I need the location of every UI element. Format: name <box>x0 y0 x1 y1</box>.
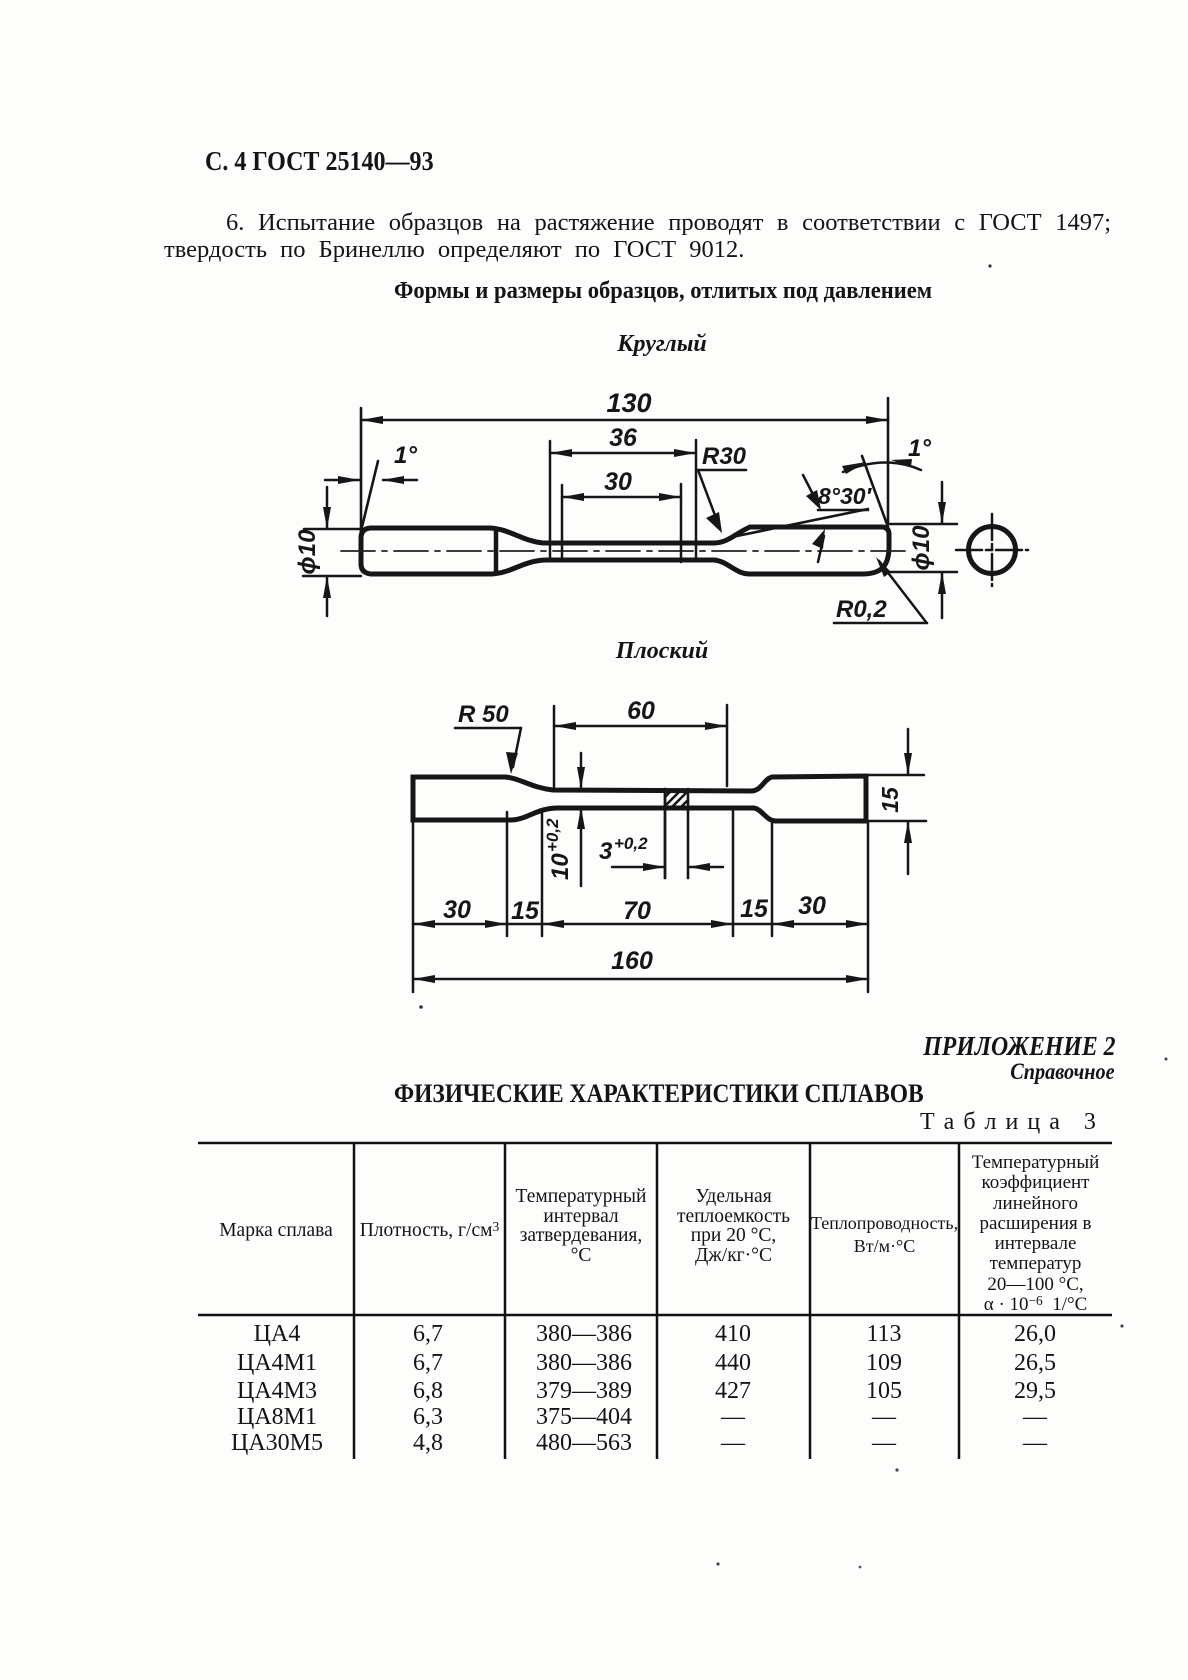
taper angle 1 deg right arc arrow at slant line <box>842 462 866 474</box>
width 3+0,2 arrow right-pointing <box>643 863 665 871</box>
diameter phi10 right arrow up <box>938 572 946 594</box>
dimension 36 arrow right <box>674 449 696 457</box>
table header col2 <box>354 1220 505 1242</box>
chain dims extension at x507 <box>506 812 509 936</box>
fillet radius R0,2 underline <box>834 622 927 625</box>
dimension 60 line <box>554 725 727 728</box>
round specimen body outline <box>361 527 889 574</box>
flat specimen body outline <box>413 776 866 821</box>
label Плоский <box>616 638 709 665</box>
radius R30 leader arrow <box>706 512 722 533</box>
table column rule 4 <box>809 1142 812 1459</box>
table column rule 1 <box>353 1142 356 1459</box>
dimension 130 extension line left <box>360 408 363 534</box>
width 3+0,2 dim tail left <box>612 866 663 869</box>
cone angle 8deg30 lower arrow line <box>818 536 824 562</box>
table top rule <box>198 1142 1112 1145</box>
diameter phi10 left arrow down <box>323 507 331 529</box>
table header col4 <box>657 1187 810 1266</box>
dimension 130 arrow left <box>361 416 383 424</box>
diameter phi10 right arrow down <box>938 502 946 524</box>
thickness 10+0,2 dim line lower <box>580 809 583 886</box>
table column rule 3 <box>656 1142 659 1459</box>
taper angle 1 deg left arrow right-pointing <box>338 476 360 484</box>
table caption <box>920 1109 1097 1136</box>
diameter phi10 left extension bottom <box>303 575 361 578</box>
chain arrow at 507 <box>485 920 507 928</box>
appendix heading ПРИЛОЖЕНИЕ 2 <box>924 1031 1116 1062</box>
thickness 10+0,2 arrow down <box>577 767 585 789</box>
cone angle 8deg30 taper extension line <box>732 509 868 537</box>
radius R30 leader line <box>698 470 719 526</box>
round specimen centerline <box>341 550 908 552</box>
taper angle 1 deg right arc arrow at extension line <box>891 459 912 467</box>
appendix subheading Справочное <box>1011 1059 1115 1085</box>
width 15 arrow down <box>904 753 912 775</box>
thickness 10+0,2 dim line upper <box>580 753 583 787</box>
width 15 dim line upper <box>907 729 910 774</box>
label Круглый <box>617 331 706 358</box>
width 15 arrow up <box>904 821 912 843</box>
dimension 30 extension line left <box>561 485 564 560</box>
table header col1 <box>198 1220 354 1242</box>
overall dimension 160 arrow right <box>846 975 868 983</box>
diameter phi10 left dim line upper <box>326 487 329 528</box>
dimension 30 arrow right <box>659 493 681 501</box>
width 15 extension top <box>868 774 924 777</box>
taper angle 1 deg right dim arc <box>843 462 921 472</box>
dimension 130 arrow right <box>866 416 888 424</box>
diameter phi10 left arrow up <box>323 576 331 598</box>
overall dimension 160 arrow left <box>413 975 435 983</box>
thickness 10+0,2 arrow up <box>577 807 585 829</box>
chain arrow at 772 <box>772 920 794 928</box>
dimension 60 extension left <box>553 706 556 787</box>
diameter phi10 right dim line upper <box>941 482 944 523</box>
width 3+0,2 dim tail right <box>690 866 723 869</box>
chain arrow at 413 <box>413 920 435 928</box>
cone angle 8deg30 lower arrow <box>812 529 825 549</box>
scan speck <box>1120 1324 1123 1327</box>
scan speck <box>1165 1058 1168 1061</box>
fillet radius R0,2 leader line <box>879 561 926 622</box>
table data row 1 <box>0 1320 1188 1322</box>
page header <box>205 146 434 177</box>
width 15 extension bottom <box>868 820 926 823</box>
cone angle 8deg30 upper arrow line <box>803 475 819 506</box>
dimension 60 arrow left <box>554 722 576 730</box>
cone angle 8deg30 upper arrow <box>806 490 821 510</box>
dimension 36 line <box>550 452 696 455</box>
chain dims extension at x413 <box>412 822 415 992</box>
table column rule 2 <box>504 1142 507 1459</box>
table header separator rule <box>198 1314 1112 1317</box>
overall dimension 160 line <box>413 978 868 981</box>
paragraph line 1 <box>164 209 1111 237</box>
dimension 30 line <box>562 496 681 499</box>
paragraph line 2 <box>164 236 744 264</box>
radius R50 leader line <box>513 728 521 767</box>
diameter phi10 left extension top <box>304 528 360 531</box>
gauge mark hatched area <box>665 791 688 807</box>
diameter phi10 left dim line lower <box>326 577 329 616</box>
table data row 5 <box>0 1429 1188 1431</box>
dimension 60 arrow right <box>705 722 727 730</box>
diameter phi10 right extension top <box>889 523 957 526</box>
table data row 4 <box>0 1403 1188 1405</box>
dimension 130 extension line right <box>887 398 890 524</box>
diameter phi10 right extension bottom <box>889 571 957 574</box>
gauge mark right line <box>687 789 690 878</box>
dimension 60 extension right <box>726 705 729 786</box>
cone angle 8deg30 label underline <box>818 509 868 512</box>
radius R50 leader horizontal <box>455 727 521 730</box>
dimension 36 arrow left <box>550 449 572 457</box>
chain arrow at 868 <box>846 920 868 928</box>
dimension 36 extension line left <box>549 441 552 560</box>
table header col6 <box>959 1153 1112 1315</box>
end view circle vertical centerline <box>991 514 994 586</box>
table heading <box>394 1078 924 1109</box>
taper angle 1 deg left arrow left-pointing <box>382 476 404 484</box>
chain arrow at 542 <box>542 920 564 928</box>
radius R50 leader arrow <box>506 752 518 774</box>
table data row 2 <box>0 1349 1188 1351</box>
taper angle 1 deg left slant line <box>361 461 378 531</box>
dimension 30 extension line right <box>680 484 683 562</box>
end view circle horizontal centerline <box>956 549 1028 552</box>
round specimen grip shoulder line <box>494 529 499 573</box>
width 3+0,2 arrow left-pointing <box>688 863 710 871</box>
table data row 3 <box>0 1377 1188 1379</box>
radius R30 leader underline <box>697 469 746 472</box>
dimension 36 extension line right <box>695 440 698 558</box>
chain dims line <box>413 923 868 926</box>
scan speck <box>895 1468 898 1471</box>
chain dims extension at x733 <box>732 809 735 936</box>
chain dims extension at x542 <box>541 810 544 936</box>
table column rule 5 <box>958 1142 961 1459</box>
scan speck <box>716 1562 719 1565</box>
scan speck <box>988 264 991 267</box>
dimension 130 line <box>361 419 888 422</box>
chain arrow at 733 <box>711 920 733 928</box>
taper angle 1 deg left dim tail right <box>383 479 417 482</box>
end view circle <box>969 527 1016 574</box>
fillet radius R0,2 leader arrow <box>876 557 891 577</box>
taper angle 1 deg right slant line <box>862 456 888 527</box>
gauge mark left line <box>664 789 667 878</box>
thickness 10+0,2 label <box>543 818 574 880</box>
chain dims extension at x772 <box>771 822 774 936</box>
width 15 dim line lower <box>907 822 910 874</box>
chain dims extension at x868 <box>867 822 870 992</box>
table header col3 <box>505 1187 657 1266</box>
section title <box>394 277 932 305</box>
scan speck <box>859 1566 862 1569</box>
dimension 30 arrow left <box>562 493 584 501</box>
scan speck <box>419 1005 423 1009</box>
taper angle 1 deg left dim tail left <box>325 479 359 482</box>
table header col5 <box>810 1212 959 1258</box>
diameter phi10 right dim line lower <box>941 573 944 618</box>
